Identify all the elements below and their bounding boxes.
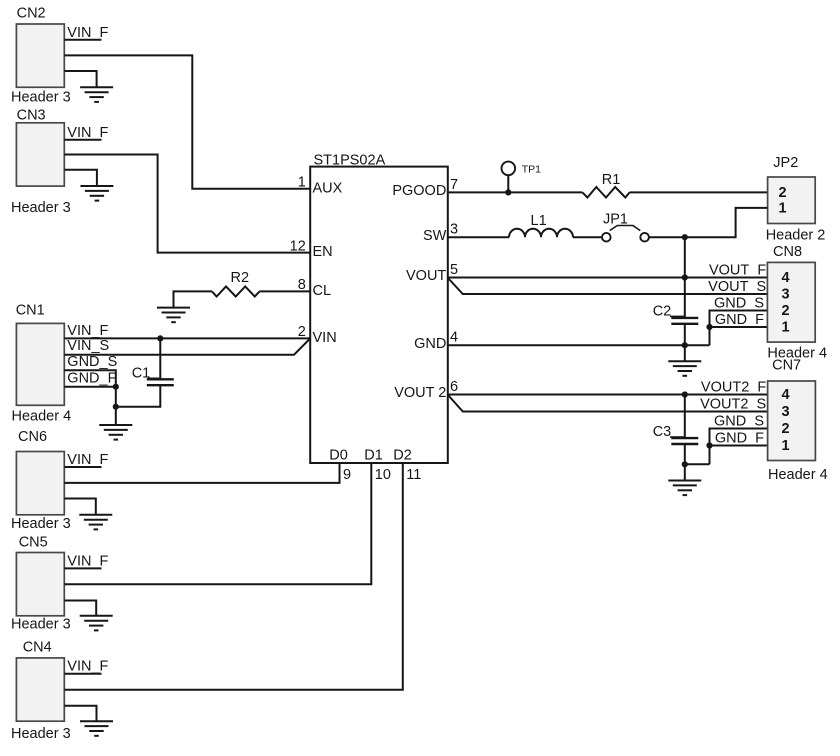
svg-text:GND_F: GND_F <box>715 312 764 328</box>
op-amp / IC U1 ST1PS02A <box>310 153 448 463</box>
svg-text:C2: C2 <box>653 303 672 319</box>
svg-text:Header 3: Header 3 <box>11 617 71 633</box>
svg-text:2: 2 <box>782 303 790 319</box>
net label VOUT_S + wire VOUT pin 5 to CN8 pin 3 <box>448 278 767 295</box>
junction node TP1 / PGOOD <box>505 189 511 195</box>
pin 7 PGOOD <box>392 177 458 199</box>
svg-text:VIN_F: VIN_F <box>67 659 108 675</box>
wire JP1 to junction <box>649 236 685 238</box>
wire JP1 out to JP2 pin 1 <box>685 208 768 237</box>
net label VOUT2_S + wire VOUT 2 pin 6 to CN7 pin 3 <box>448 395 768 413</box>
svg-text:Header 3: Header 3 <box>11 516 71 532</box>
svg-text:4: 4 <box>782 387 790 403</box>
wire R1 to JP2 pin 2 <box>630 191 768 193</box>
svg-text:GND_F: GND_F <box>67 371 116 387</box>
pin 10 D1 <box>364 447 391 483</box>
svg-text:VIN_F: VIN_F <box>67 553 108 569</box>
ground (CN1/C1) <box>99 425 132 440</box>
junction node GND / C2 <box>682 342 688 348</box>
svg-text:7: 7 <box>450 177 458 193</box>
svg-text:1: 1 <box>298 175 306 191</box>
wire CN3 pin 3 to ground <box>64 170 97 186</box>
svg-text:1: 1 <box>782 438 790 454</box>
svg-text:Header 4: Header 4 <box>768 467 828 483</box>
ground (CN2) <box>80 87 113 102</box>
svg-text:VOUT_S: VOUT_S <box>708 279 766 295</box>
svg-text:GND_S: GND_S <box>714 296 764 312</box>
pin 4 GND <box>414 330 458 352</box>
svg-text:AUX: AUX <box>313 180 343 196</box>
svg-text:ST1PS02A: ST1PS02A <box>314 153 386 169</box>
svg-text:12: 12 <box>290 238 306 254</box>
pin 12 EN <box>290 238 333 260</box>
wire C3 top to VOUT2 junction <box>684 395 686 439</box>
wire CN4 pin 2 to D2 pin 11 <box>64 463 403 690</box>
wire C1 bottom to ground net <box>116 385 161 407</box>
capacitor C3 <box>653 424 699 444</box>
svg-text:4: 4 <box>450 330 458 346</box>
pin 5 VOUT <box>406 262 458 284</box>
svg-text:EN: EN <box>313 244 333 260</box>
svg-text:L1: L1 <box>531 213 547 229</box>
wire CN5 pin 3 to ground <box>64 601 96 616</box>
svg-text:11: 11 <box>406 467 421 483</box>
svg-text:VIN_F: VIN_F <box>67 452 108 468</box>
svg-text:3: 3 <box>450 222 458 238</box>
svg-text:CN1: CN1 <box>16 303 45 319</box>
svg-text:VOUT: VOUT <box>406 268 446 284</box>
svg-text:CN8: CN8 <box>773 244 802 260</box>
net label VIN_F (CN6 pin 1) <box>64 452 108 468</box>
junction node SW <box>682 234 688 240</box>
svg-text:3: 3 <box>782 287 790 303</box>
svg-text:1: 1 <box>782 320 790 336</box>
net label VIN_S + wire CN1 pin 2 to VIN pin 2 <box>64 338 310 355</box>
net label GND_S + wire to CN8 pin 2 <box>710 296 768 346</box>
junction node VOUT <box>682 274 688 280</box>
net label GND_F + wire CN1 pin 4 <box>64 371 116 387</box>
connector CN5 Header 3 <box>11 535 71 633</box>
connector CN2 Header 3 <box>11 6 71 106</box>
pin 2 VIN <box>298 324 337 346</box>
wire CN2 pin 3 to ground <box>64 71 96 87</box>
connector CN3 Header 3 <box>11 107 71 215</box>
resistor R1 <box>582 172 629 197</box>
net label GND_F + wire to CN7 pin 1 <box>710 431 768 447</box>
resistor R2 <box>212 270 260 296</box>
wire GND pin 4 <box>448 344 710 346</box>
svg-text:TP1: TP1 <box>522 163 541 175</box>
svg-text:D2: D2 <box>393 447 412 463</box>
wire L1 to JP1 <box>573 236 602 238</box>
svg-text:GND_S: GND_S <box>67 354 117 370</box>
svg-text:JP2: JP2 <box>773 155 798 171</box>
connector CN6 Header 3 <box>11 429 71 532</box>
pin 1 AUX <box>298 175 343 197</box>
svg-text:10: 10 <box>375 467 391 483</box>
net label GND_S + wire to CN7 pin 2 <box>710 414 768 465</box>
net label GND_S + wire CN1 pin 3 <box>64 354 117 387</box>
svg-text:5: 5 <box>450 262 458 278</box>
inductor L1 <box>509 213 573 237</box>
connector CN1 Header 4 <box>12 303 72 425</box>
svg-text:CN3: CN3 <box>17 107 46 123</box>
ground (CN3) <box>80 186 113 201</box>
pin 8 CL <box>298 277 331 299</box>
capacitor C1 <box>132 365 174 385</box>
svg-text:2: 2 <box>298 324 306 340</box>
junction node GND_F CN8 <box>706 324 712 330</box>
jumper JP1 <box>602 212 649 242</box>
connector JP2 Header 2 <box>766 155 826 244</box>
svg-text:VIN_F: VIN_F <box>67 25 108 41</box>
test point TP1 <box>502 162 542 193</box>
svg-text:PGOOD: PGOOD <box>392 183 446 199</box>
svg-text:VIN_F: VIN_F <box>67 323 108 339</box>
svg-text:Header 4: Header 4 <box>12 408 72 424</box>
wire R2 to CL pin 8 <box>260 290 311 292</box>
svg-text:Header 3: Header 3 <box>11 200 71 216</box>
svg-text:6: 6 <box>450 379 458 395</box>
svg-text:VOUT 2: VOUT 2 <box>394 385 446 401</box>
svg-text:2: 2 <box>782 421 790 437</box>
wire PGOOD pin 7 to R1 <box>448 191 583 193</box>
svg-text:VOUT2_F: VOUT2_F <box>701 380 766 396</box>
svg-text:2: 2 <box>779 185 787 201</box>
svg-text:VIN_F: VIN_F <box>67 125 108 141</box>
svg-text:9: 9 <box>343 467 351 483</box>
svg-text:Header 3: Header 3 <box>11 89 71 105</box>
connector CN4 Header 3 <box>11 640 71 743</box>
wire CN6 pin 2 to D0 pin 9 <box>64 463 339 483</box>
pin 3 SW <box>423 222 458 244</box>
junction node VOUT2 <box>682 391 688 397</box>
svg-text:D1: D1 <box>364 447 383 463</box>
svg-text:4: 4 <box>782 270 790 286</box>
junction node VIN_F / C1 <box>157 335 163 341</box>
junction node C3 ground <box>682 461 688 467</box>
capacitor C2 <box>653 303 699 323</box>
svg-text:GND_F: GND_F <box>715 431 764 447</box>
pin 6 VOUT 2 <box>394 379 458 401</box>
svg-text:D0: D0 <box>329 447 348 463</box>
wire CN6 pin 3 to ground <box>64 499 96 515</box>
ground (CN4) <box>80 721 113 736</box>
connector CN8 Header 4 <box>767 244 827 361</box>
wire C2 bottom to ground <box>684 324 686 361</box>
svg-text:Header 2: Header 2 <box>766 228 826 244</box>
wire C3 bottom to ground <box>684 444 686 481</box>
svg-text:GND: GND <box>414 336 446 352</box>
wire C2 top to VOUT junction <box>684 278 686 318</box>
svg-text:R2: R2 <box>231 270 250 286</box>
svg-text:CN7: CN7 <box>772 357 801 373</box>
ground (C2) <box>668 361 701 376</box>
ground (C3) <box>668 481 701 496</box>
wire C1 top to VIN_F <box>159 338 161 379</box>
svg-text:VOUT_F: VOUT_F <box>709 263 766 279</box>
wire ground run C3 to CN7 <box>685 463 710 465</box>
net label VIN_F + wire CN1 pin 1 to VIN pin 2 <box>64 323 310 339</box>
wire CN3 pin 2 to EN pin 12 <box>64 155 310 253</box>
svg-text:JP1: JP1 <box>603 212 628 228</box>
junction node GND_F CN7 <box>706 442 712 448</box>
svg-text:VIN_S: VIN_S <box>67 338 109 354</box>
net label GND_F + wire to CN8 pin 1 <box>710 312 768 328</box>
connector CN7 Header 4 <box>768 357 828 483</box>
svg-text:CN2: CN2 <box>17 6 46 22</box>
wire R2 to ground <box>174 291 213 307</box>
ground (R2) <box>157 308 190 323</box>
svg-text:C1: C1 <box>132 365 151 381</box>
ground (CN6) <box>79 515 112 530</box>
svg-text:VOUT2_S: VOUT2_S <box>700 397 766 413</box>
svg-text:GND_S: GND_S <box>714 414 764 430</box>
svg-text:3: 3 <box>782 404 790 420</box>
junction node GND_F <box>113 384 119 390</box>
svg-text:R1: R1 <box>602 172 621 188</box>
svg-text:1: 1 <box>779 200 787 216</box>
net label VOUT_F + wire VOUT pin 5 to CN8 pin 4 <box>448 263 768 279</box>
svg-text:CL: CL <box>313 283 332 299</box>
svg-text:CN6: CN6 <box>18 429 47 445</box>
wire SW junction down to VOUT junction <box>684 237 686 277</box>
wire CN4 pin 3 to ground <box>64 706 96 722</box>
pin 11 D2 <box>393 447 421 483</box>
ground (CN5) <box>80 616 113 631</box>
wire CN5 pin 2 to D1 pin 10 <box>64 463 371 584</box>
wire GND_F down to ground <box>115 387 117 425</box>
svg-text:CN5: CN5 <box>19 535 48 551</box>
net label VIN_F (CN5 pin 1) <box>64 553 108 569</box>
pin 9 D0 <box>329 447 351 483</box>
wire CN2 pin 2 to AUX pin 1 <box>64 55 310 188</box>
net label VIN_F (CN3 pin 1) <box>64 125 108 141</box>
svg-text:SW: SW <box>423 228 447 244</box>
wire SW pin 3 to L1 <box>448 236 509 238</box>
svg-text:Header 3: Header 3 <box>11 726 71 742</box>
svg-text:C3: C3 <box>653 424 672 440</box>
svg-text:VIN: VIN <box>313 330 337 346</box>
net label VIN_F (CN4 pin 1) <box>64 659 108 675</box>
junction node C1 ground <box>113 404 119 410</box>
svg-text:CN4: CN4 <box>23 640 52 656</box>
net label VIN_F (CN2 pin 1) <box>64 25 108 41</box>
net label VOUT2_F + wire VOUT 2 pin 6 to CN7 pin 4 <box>448 380 768 396</box>
